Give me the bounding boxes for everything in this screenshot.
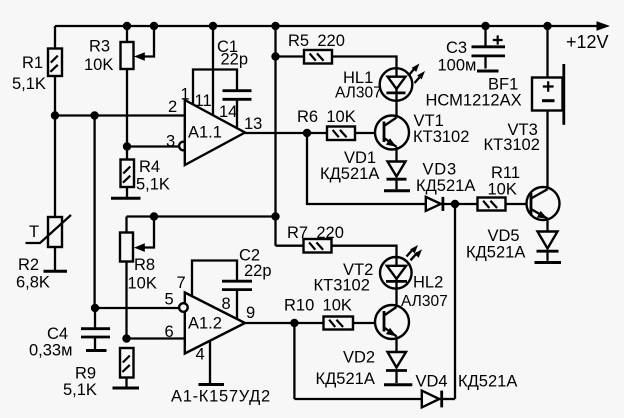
svg-text:A1.2: A1.2: [188, 315, 222, 333]
node pin5/C4: [91, 304, 99, 312]
wire R6 to VT1 base: [355, 132, 384, 134]
svg-text:R9: R9: [75, 365, 96, 383]
svg-text:VD3: VD3: [423, 161, 458, 179]
wire pin4: [209, 341, 211, 383]
node rail/BF1: [543, 22, 551, 30]
resistor R1: [48, 49, 62, 77]
svg-text:C4: C4: [47, 325, 68, 343]
svg-text:HL2: HL2: [413, 274, 443, 292]
svg-text:6,8K: 6,8K: [16, 274, 50, 292]
wire C3 top from rail: [484, 26, 486, 46]
wire R11 to VT3 base: [506, 203, 532, 205]
svg-text:5,1K: 5,1K: [136, 176, 170, 194]
svg-text:13: 13: [244, 115, 262, 133]
svg-text:КТ3102: КТ3102: [484, 136, 540, 154]
svg-text:R7 220: R7 220: [287, 224, 344, 242]
svg-text:VD4: VD4: [416, 373, 448, 391]
potentiometer R3: [121, 42, 134, 69]
LED HL2: [380, 257, 412, 309]
svg-text:4: 4: [196, 346, 205, 364]
diode VD2: [386, 352, 407, 383]
svg-text:2: 2: [168, 98, 177, 116]
svg-text:100м: 100м: [438, 57, 477, 75]
wire R7 left lead: [276, 245, 304, 247]
node R1/pin2 junction: [51, 111, 59, 119]
ground pin4: [199, 383, 225, 386]
svg-text:КТ3102: КТ3102: [314, 277, 370, 295]
wire down to VD4: [454, 204, 456, 399]
svg-text:5: 5: [165, 291, 174, 309]
wire A1.2 output: [245, 322, 324, 324]
svg-text:5,1K: 5,1K: [12, 75, 46, 93]
wire R1 top lead: [54, 26, 56, 49]
svg-text:1: 1: [181, 86, 190, 104]
resistor R9: [120, 348, 134, 378]
svg-text:VD5: VD5: [488, 227, 520, 245]
node rail/wiper: [150, 22, 158, 30]
wire A1.1 output: [245, 132, 327, 134]
node rail/pin11: [209, 22, 217, 30]
node R3/R4/pin3: [123, 142, 131, 150]
resistor R5: [304, 50, 332, 64]
svg-text:КД521А: КД521А: [458, 373, 517, 391]
wire R3 bottom to R4: [126, 69, 128, 160]
R3 wiper arrow: [134, 26, 154, 61]
wire long vertical to pin5: [93, 116, 95, 309]
wire supply vertical: [274, 26, 276, 246]
wire VD4 cathode: [442, 398, 455, 400]
diode VD1: [387, 162, 407, 190]
svg-text:C3: C3: [446, 39, 467, 57]
op-amp A1.1: [185, 100, 245, 165]
+12V rail: [55, 21, 610, 30]
R8 wiper arrow: [134, 217, 154, 252]
wire pin1 to C1: [193, 70, 237, 105]
wire pin5: [95, 307, 179, 309]
wire R5 left lead: [276, 55, 305, 57]
wire pin3: [127, 145, 179, 147]
svg-text:КД521А: КД521А: [320, 165, 379, 183]
svg-text:10K: 10K: [128, 275, 157, 293]
resistor R4: [121, 160, 135, 188]
wire R9 bottom: [125, 378, 127, 387]
node pin2/long branch: [90, 111, 98, 119]
wire R4 bottom: [126, 187, 128, 197]
svg-text:VD2: VD2: [343, 349, 375, 367]
wire VT2 emitter to VD2: [395, 336, 397, 352]
capacitor C3: [472, 35, 506, 68]
svg-text:3: 3: [166, 133, 175, 151]
wire BF1 top from rail: [546, 26, 548, 78]
svg-text:8: 8: [222, 295, 231, 313]
svg-text:АЛ307: АЛ307: [401, 293, 448, 310]
node R8 feed tap: [271, 212, 279, 220]
transistor VT2: [375, 305, 409, 339]
pin3 inverting circle: [179, 142, 188, 151]
ground VD2: [384, 383, 412, 386]
svg-text:КД521А: КД521А: [316, 370, 375, 388]
resistor R11: [478, 198, 506, 211]
node VD3/VD4 branch: [451, 200, 459, 208]
capacitor C4: [81, 308, 110, 349]
ground C4: [86, 349, 107, 352]
wire R8 feed: [127, 215, 276, 217]
wire R10 to VT2 base: [353, 322, 384, 324]
wire pin11 from rail: [212, 26, 214, 115]
svg-text:10K: 10K: [488, 181, 517, 199]
svg-text:22p: 22p: [221, 51, 249, 69]
wire R5 to HL1: [332, 57, 397, 69]
HL2 emission arrows: [407, 245, 423, 260]
capacitor C2: [222, 281, 252, 319]
wire R1 bottom to R2: [54, 76, 56, 217]
resistor R10: [324, 317, 354, 330]
node rail/C3: [481, 22, 489, 30]
wire VD3 cathode to R11: [443, 203, 478, 205]
capacitor C1: [223, 91, 252, 128]
LED HL1: [380, 68, 413, 119]
svg-text:+12V: +12V: [566, 32, 609, 52]
op-amp A1.2: [185, 293, 245, 354]
svg-text:R2: R2: [18, 256, 39, 274]
ground VD5: [535, 261, 562, 264]
thermistor R2: [26, 215, 72, 247]
ground C3: [477, 70, 499, 73]
svg-text:Т: Т: [29, 223, 39, 241]
node wiper R8: [150, 212, 158, 220]
svg-text:КД521А: КД521А: [466, 244, 525, 262]
svg-text:R10 10K: R10 10K: [284, 297, 352, 315]
pin5 inverting circle: [179, 303, 188, 312]
svg-text:R1: R1: [22, 54, 43, 72]
wire VT3 emitter to VD5: [546, 219, 548, 232]
svg-text:A1.1: A1.1: [188, 124, 222, 142]
ground R2: [44, 270, 68, 273]
svg-text:R11: R11: [491, 164, 520, 182]
svg-text:22p: 22p: [244, 262, 272, 280]
node rail/vertical: [271, 22, 279, 30]
transistor VT1: [375, 116, 409, 150]
svg-text:10K: 10K: [84, 56, 113, 74]
ground R4: [111, 197, 141, 200]
svg-text:R4: R4: [139, 158, 160, 176]
svg-text:R6 10K: R6 10K: [297, 108, 356, 126]
svg-text:R5 220: R5 220: [288, 32, 345, 50]
node R8/R9/pin6: [122, 334, 130, 342]
transistor VT3: [527, 187, 560, 220]
diode VD4: [422, 391, 442, 408]
svg-text:КТ3102: КТ3102: [413, 128, 469, 146]
svg-text:9: 9: [246, 304, 255, 322]
wire R2 bottom: [54, 247, 56, 270]
wire pin6: [127, 337, 185, 339]
svg-text:R3: R3: [89, 38, 110, 56]
wire inverting input pin2: [55, 114, 185, 116]
node output/VD4 branch: [290, 319, 298, 327]
wire branch down to diode line: [307, 133, 426, 204]
svg-text:АЛ307: АЛ307: [335, 85, 382, 102]
svg-text:R8: R8: [134, 256, 155, 274]
wire R3 top lead: [126, 26, 128, 42]
svg-text:КД521А: КД521А: [416, 177, 475, 195]
buzzer BF1: [532, 64, 564, 125]
wire down to bottom: [293, 323, 295, 399]
resistor R6: [327, 127, 355, 141]
svg-text:0,33м: 0,33м: [29, 342, 72, 360]
diode VD5: [537, 232, 559, 261]
potentiometer R8: [120, 217, 133, 339]
svg-text:А1-К157УД2: А1-К157УД2: [171, 388, 271, 406]
diode VD3: [426, 197, 443, 211]
svg-text:11: 11: [195, 92, 212, 110]
ground VD1: [384, 189, 410, 192]
wire R7 to HL2: [332, 246, 397, 257]
node output/VD branch: [303, 129, 311, 137]
wire VT3 collector to BF1: [546, 111, 548, 190]
svg-text:7: 7: [177, 274, 186, 292]
ground R9: [113, 387, 140, 390]
node R5 tap: [271, 52, 279, 60]
wire pin7 to C2: [192, 261, 237, 297]
svg-text:14: 14: [219, 103, 237, 121]
resistor R7: [304, 239, 332, 253]
svg-text:НСМ1212АХ: НСМ1212АХ: [426, 92, 522, 110]
HL1 emission arrows: [409, 64, 425, 84]
wire bottom rail: [294, 398, 421, 400]
wire VT1 emitter to VD1: [395, 147, 397, 162]
svg-text:5,1K: 5,1K: [63, 381, 97, 399]
node rail/R3: [123, 22, 131, 30]
